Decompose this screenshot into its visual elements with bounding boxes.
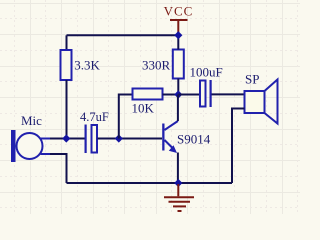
resistor R 3.3K [61, 50, 72, 80]
capacitor C 100uF [200, 80, 212, 107]
wire C2 to speaker [212, 93, 245, 95]
svg-text:330R: 330R [142, 58, 171, 73]
svg-text:100uF: 100uF [190, 65, 223, 80]
wire collector node to C2 [178, 94, 200, 96]
svg-text:4.7uF: 4.7uF [80, 110, 109, 124]
transistor Q S9014 [162, 121, 178, 153]
speaker SP [245, 80, 278, 124]
wire 330R top lead [177, 35, 179, 49]
junction node ground [174, 179, 182, 187]
ground symbol [164, 184, 194, 211]
wire R2 left leg [119, 95, 133, 139]
resistor R 330R [173, 50, 184, 79]
wire bottom rail [67, 182, 233, 184]
power symbol VCC bar [170, 20, 188, 35]
wire top rail [67, 34, 179, 36]
wire left drop to R1 [66, 35, 68, 50]
junction node at R1/mic [62, 134, 70, 142]
wire emitter pin [177, 153, 179, 184]
svg-text:S9014: S9014 [177, 132, 211, 147]
junction node collector [174, 90, 182, 98]
wire C1 to base [98, 138, 163, 140]
capacitor C 4.7uF [85, 125, 98, 154]
svg-text:10K: 10K [132, 101, 155, 116]
wire mic top pin to C1 [50, 138, 85, 140]
microphone Mic [11, 130, 52, 162]
svg-text:3.3K: 3.3K [74, 58, 100, 73]
junction node VCC [174, 31, 182, 39]
wire collector pin [177, 95, 179, 122]
wire mic bottom pin [50, 154, 67, 183]
wire speaker bottom pin [232, 109, 245, 184]
wire 330R bottom lead [177, 79, 179, 95]
resistor R 10K [133, 89, 163, 100]
junction node base/R2 [115, 134, 123, 142]
svg-text:SP: SP [245, 72, 259, 87]
svg-text:Mic: Mic [21, 113, 42, 128]
wire R1 bottom to mic node [66, 80, 68, 139]
wire R2 right leg [163, 94, 179, 96]
svg-text:VCC: VCC [164, 4, 194, 19]
